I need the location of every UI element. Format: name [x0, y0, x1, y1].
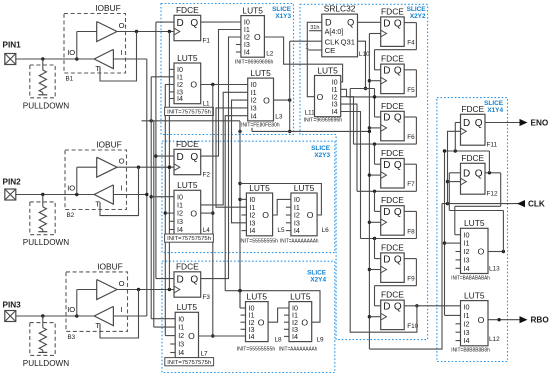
svg-text:FDCE: FDCE: [381, 54, 404, 64]
slice boundary X2Y4: [162, 261, 335, 372]
svg-text:FDCE: FDCE: [381, 290, 404, 300]
svg-text:INIT=AAAAAAAAh: INIT=AAAAAAAAh: [280, 239, 319, 245]
svg-text:SLICE: SLICE: [407, 6, 427, 13]
svg-text:I4: I4: [177, 225, 183, 234]
svg-text:PULLDOWN: PULLDOWN: [23, 238, 69, 247]
svg-text:F2: F2: [203, 172, 211, 179]
wire L3 output to clock net: [238, 41, 369, 133]
flip-flop F4: [381, 6, 415, 46]
svg-text:IOBUF: IOBUF: [95, 3, 121, 13]
output port ENO: [520, 119, 549, 128]
wire F4 Q wrap to F5 D: [375, 23, 417, 70]
svg-text:L10: L10: [359, 51, 370, 58]
svg-text:CE: CE: [325, 46, 336, 55]
svg-text:Q: Q: [190, 274, 198, 285]
LUT5 L2: [235, 5, 274, 65]
svg-text:D: D: [383, 66, 390, 77]
svg-text:Q: Q: [475, 118, 483, 129]
wire L13 O to F12 D: [449, 173, 505, 253]
svg-text:L2: L2: [266, 51, 274, 58]
wire F5 D join line: [350, 89, 376, 99]
wire O output of B1 to flip-flop clock: [117, 30, 174, 33]
input buffer triangle of B3: [94, 306, 113, 325]
wire SRLC32 Q31: [358, 41, 368, 90]
svg-text:B3: B3: [68, 334, 76, 341]
svg-text:FDCE: FDCE: [381, 101, 404, 111]
svg-text:Q: Q: [190, 18, 198, 29]
wire L11 I4 feed from F8 wrap: [341, 112, 361, 239]
svg-text:INIT=AAAAAAAAh: INIT=AAAAAAAAh: [279, 347, 318, 353]
flip-flop F8: [381, 195, 415, 235]
svg-text:L4: L4: [203, 227, 211, 234]
wire bundle vertical L3I4-L9 net: [225, 116, 248, 291]
svg-text:O: O: [262, 210, 269, 220]
wire net L1 I1 to L7 I0 vertical: [150, 77, 176, 319]
LUT5 L13: [451, 218, 500, 281]
IOBUF buffer B2: [65, 139, 127, 219]
wire L8 output to L9 I0: [268, 308, 289, 322]
svg-text:L8: L8: [275, 337, 283, 344]
wire L11 output to SRLC32 D: [307, 22, 322, 96]
svg-text:LUT5: LUT5: [242, 5, 263, 15]
svg-text:IOBUF: IOBUF: [97, 261, 123, 271]
svg-text:X2Y3: X2Y3: [314, 152, 330, 159]
svg-text:D: D: [177, 18, 184, 29]
svg-text:I4: I4: [244, 48, 250, 57]
wire SRLC32 Q to F4 D: [358, 21, 381, 23]
output buffer triangle of B3: [97, 280, 117, 300]
wire net L7 I1 feed: [154, 121, 175, 327]
svg-text:O: O: [188, 331, 195, 341]
svg-text:LUT5: LUT5: [294, 183, 315, 193]
output buffer triangle of B1: [97, 22, 117, 42]
svg-text:LUT5: LUT5: [250, 68, 271, 78]
wire O output of B3 to flip-flop clock: [117, 288, 174, 291]
svg-text:SRLC32: SRLC32: [324, 4, 356, 14]
LUT5 L11: [304, 65, 343, 123]
flip-flop F1: [174, 5, 210, 45]
svg-text:INIT=75757575h: INIT=75757575h: [167, 236, 211, 242]
input buffer triangle of B2: [94, 185, 113, 204]
svg-text:L1: L1: [203, 101, 211, 108]
svg-text:I4: I4: [177, 94, 183, 103]
flip-flop F7: [381, 148, 415, 188]
wire clock bus vertical: [368, 34, 381, 350]
wire clock net bottom run: [369, 204, 442, 350]
svg-text:D: D: [383, 18, 390, 29]
svg-text:L13: L13: [489, 266, 500, 273]
svg-text:X1Y4: X1Y4: [487, 107, 503, 114]
input buffer triangle of B1: [94, 49, 113, 68]
wire I-input vertical net: [145, 59, 148, 316]
svg-text:B2: B2: [67, 212, 75, 219]
svg-text:X1Y3: X1Y3: [275, 13, 291, 20]
svg-text:SLICE: SLICE: [311, 145, 331, 152]
svg-text:LUT5: LUT5: [249, 183, 270, 193]
wire L7 output to L8 I4: [199, 335, 246, 337]
wire L4 output: [201, 212, 213, 214]
svg-text:O: O: [119, 279, 125, 288]
pad PIN1: [3, 41, 22, 65]
svg-text:I4: I4: [249, 226, 255, 235]
IOBUF buffer B3: [66, 261, 128, 341]
wire L12 output to RBO: [488, 318, 520, 321]
svg-text:B1: B1: [66, 76, 74, 83]
wire horizontal bus y121: [142, 119, 241, 122]
svg-text:D: D: [463, 169, 470, 180]
svg-text:INIT=96969696h: INIT=96969696h: [235, 60, 274, 66]
wire I2 vertical net L1-L4-L7: [164, 85, 176, 336]
pulldown resistor R1: [23, 59, 69, 110]
svg-text:RBO: RBO: [531, 316, 550, 325]
svg-text:CLK: CLK: [528, 200, 545, 209]
svg-text:Q: Q: [394, 254, 402, 265]
pad PIN3: [3, 301, 22, 322]
flip-flop F3: [174, 261, 210, 301]
svg-text:F9: F9: [407, 276, 415, 283]
wire L11 I1 feed from F5 wrap: [341, 89, 347, 97]
svg-text:F4: F4: [407, 40, 415, 47]
constant 31h on A[4:0]: [309, 25, 322, 31]
svg-text:INIT=75757575h: INIT=75757575h: [167, 110, 211, 116]
shift register SRLC32 L10: [322, 4, 370, 58]
LUT5 L5: [240, 183, 285, 245]
svg-text:INIT=B8B8B8B8h: INIT=B8B8B8B8h: [451, 347, 490, 353]
wire bundle vertical L3I2-L5I3: [232, 100, 248, 223]
pad PIN2: [3, 178, 22, 201]
svg-text:IOBUF: IOBUF: [96, 139, 122, 149]
IOBUF buffer B1: [64, 3, 126, 83]
svg-text:FDCE: FDCE: [461, 153, 484, 163]
LUT5 L3: [241, 68, 283, 128]
svg-text:I4: I4: [292, 332, 298, 341]
svg-text:O: O: [190, 208, 197, 218]
constant 1 on CE: [305, 44, 322, 51]
wire F10 Q feedback loop: [350, 89, 418, 333]
wire pad net PIN2: [16, 167, 97, 196]
wire O output of B2 to flip-flop clock: [117, 166, 174, 169]
flip-flop F2: [174, 139, 210, 179]
svg-text:Q: Q: [394, 207, 402, 218]
svg-text:I4: I4: [332, 107, 338, 116]
wire bundle vertical L3I1-L4I1: [174, 92, 248, 205]
wire L1 I0 feed from clock net: [169, 68, 174, 70]
wire pad net PIN3: [16, 290, 97, 318]
wire pad net PIN1: [16, 32, 97, 61]
svg-text:FDCE: FDCE: [176, 139, 199, 149]
LUT5 L9: [279, 291, 324, 352]
svg-text:O: O: [478, 315, 485, 325]
slice boundary X2Y2 L-shaped: [300, 4, 428, 339]
svg-text:Q: Q: [394, 302, 402, 313]
svg-text:LUT5: LUT5: [177, 180, 198, 190]
svg-text:Q: Q: [394, 18, 402, 29]
svg-text:LUT5: LUT5: [464, 218, 485, 228]
slice boundary X1Y3: [161, 4, 294, 135]
LUT5 L1: [165, 53, 214, 116]
flip-flop F6: [381, 101, 415, 141]
wire L2 output to L11 I0: [264, 37, 342, 82]
svg-text:I: I: [121, 305, 123, 314]
svg-text:ENO: ENO: [531, 119, 549, 128]
svg-text:F11: F11: [487, 142, 498, 149]
svg-text:L11: L11: [305, 110, 316, 117]
wire L5 output to L6 I0: [273, 199, 291, 215]
svg-text:O: O: [254, 32, 261, 42]
svg-text:F8: F8: [407, 228, 415, 235]
svg-text:L6: L6: [322, 227, 330, 234]
svg-text:D: D: [463, 118, 470, 129]
pulldown resistor R2: [23, 195, 69, 248]
svg-text:SLICE: SLICE: [272, 6, 292, 13]
wire bundle vertical L3I3-L5I1: [216, 108, 248, 207]
LUT5 L4: [165, 180, 214, 242]
svg-text:L7: L7: [201, 351, 209, 358]
wire F8 Q wrap to F9 D: [361, 211, 417, 258]
svg-text:I4: I4: [464, 264, 470, 273]
svg-text:D: D: [383, 113, 390, 124]
pulldown resistor R3: [23, 316, 69, 368]
LUT5 L12: [451, 290, 500, 353]
wire L9 output net: [225, 289, 320, 322]
wire F12 Q to L13 I0: [455, 173, 501, 235]
wire bundle vertical L2I1-F2Q: [201, 30, 241, 157]
wire L13 I1 and L12 I1 feed: [443, 149, 461, 315]
wire I input of B3: [113, 315, 146, 317]
svg-text:SLICE: SLICE: [484, 100, 504, 107]
pin labels of B1: [67, 21, 124, 73]
svg-text:IO: IO: [67, 48, 75, 57]
svg-text:X2Y2: X2Y2: [410, 13, 426, 20]
svg-text:Q: Q: [475, 169, 483, 180]
svg-text:D: D: [383, 207, 390, 218]
wire L1 output net: [201, 83, 248, 338]
svg-text:F6: F6: [407, 134, 415, 141]
wire T feedback of B1: [100, 32, 137, 82]
LUT5 L7: [165, 302, 214, 366]
svg-text:L3: L3: [275, 114, 283, 121]
svg-text:PIN1: PIN1: [3, 41, 22, 50]
svg-text:LUT5: LUT5: [177, 53, 198, 63]
svg-text:I: I: [121, 184, 123, 193]
wire I input of B2: [113, 194, 146, 196]
svg-text:O: O: [119, 21, 125, 30]
svg-text:INIT=55555555h: INIT=55555555h: [240, 239, 279, 245]
svg-text:F5: F5: [407, 87, 415, 94]
pin labels of B3: [67, 279, 124, 330]
wire CLK to F11 F12 clocks: [446, 131, 461, 203]
svg-text:O: O: [301, 317, 308, 327]
svg-text:I: I: [121, 48, 123, 57]
svg-text:SLICE: SLICE: [307, 270, 327, 277]
svg-text:LUT5: LUT5: [317, 65, 338, 75]
svg-text:FDCE: FDCE: [381, 148, 404, 158]
svg-text:IO: IO: [67, 184, 75, 193]
svg-text:PIN2: PIN2: [3, 178, 22, 187]
svg-text:L12: L12: [489, 336, 500, 343]
svg-text:Q: Q: [394, 113, 402, 124]
svg-text:Q: Q: [347, 18, 354, 28]
svg-text:I4: I4: [178, 348, 184, 357]
svg-text:O: O: [307, 210, 314, 220]
svg-text:LUT5: LUT5: [290, 291, 311, 301]
LUT5 L8: [237, 291, 282, 352]
svg-text:O: O: [317, 92, 324, 102]
svg-text:O: O: [258, 317, 265, 327]
slice boundary X1Y4: [437, 98, 508, 362]
svg-text:F12: F12: [487, 191, 498, 198]
svg-text:PIN3: PIN3: [3, 301, 22, 310]
wire CLK input: [442, 202, 519, 205]
svg-text:L5: L5: [277, 227, 285, 234]
wire L6 output net: [240, 184, 321, 216]
svg-text:CLK: CLK: [325, 37, 341, 46]
svg-text:D: D: [177, 152, 184, 163]
svg-text:Q: Q: [190, 152, 198, 163]
input port CLK: [517, 200, 545, 209]
flip-flop F9: [381, 242, 415, 282]
svg-text:X2Y4: X2Y4: [310, 277, 326, 284]
wire F1 Q to L2 I0: [201, 21, 241, 23]
svg-text:FDCE: FDCE: [176, 5, 199, 15]
svg-text:L9: L9: [317, 337, 325, 344]
svg-text:A[4:0]: A[4:0]: [325, 27, 344, 36]
svg-text:I4: I4: [294, 226, 300, 235]
wire F12 Q to F11 D over F12: [445, 123, 501, 175]
wire T feedback of B3: [100, 290, 139, 339]
svg-text:PULLDOWN: PULLDOWN: [23, 359, 69, 368]
svg-text:INIT=BABABABAh: INIT=BABABABAh: [451, 276, 490, 282]
svg-text:FDCE: FDCE: [381, 242, 404, 252]
svg-text:O: O: [190, 80, 197, 90]
LUT5 L6: [280, 183, 329, 245]
svg-text:FDCE: FDCE: [381, 6, 404, 16]
output buffer triangle of B2: [97, 157, 117, 177]
wire F9 Q wrap to F10 D: [375, 259, 417, 306]
svg-text:FDCE: FDCE: [381, 195, 404, 205]
svg-text:Q31: Q31: [340, 37, 355, 46]
wire L11 I2 feed from F6 wrap: [341, 97, 354, 144]
wire F11 Q to ENO: [485, 122, 520, 124]
svg-text:D: D: [383, 254, 390, 265]
svg-text:Q: Q: [394, 66, 402, 77]
svg-text:Q: Q: [394, 160, 402, 171]
wire F10 Q to L12 I0: [404, 305, 460, 307]
svg-text:LUT5: LUT5: [464, 290, 485, 300]
wire bundle vertical L2I2-F3Q: [201, 37, 241, 279]
svg-text:FDCE: FDCE: [461, 104, 484, 114]
svg-text:D: D: [383, 302, 390, 313]
svg-text:O: O: [119, 157, 125, 166]
wire clock vertical net from B1 O: [168, 32, 171, 290]
svg-text:D: D: [177, 274, 184, 285]
flip-flop F5: [381, 54, 415, 94]
svg-text:F7: F7: [407, 181, 415, 188]
flip-flop F10: [381, 290, 419, 330]
svg-text:INIT=55555555h: INIT=55555555h: [237, 347, 276, 353]
svg-text:IO: IO: [67, 305, 75, 314]
svg-text:O: O: [478, 247, 485, 257]
wire D net of F1 F2 F3: [154, 22, 174, 279]
svg-text:I4: I4: [464, 336, 470, 345]
svg-text:I4: I4: [249, 332, 255, 341]
svg-text:O: O: [263, 95, 270, 105]
wire I input of B1: [113, 58, 146, 60]
svg-text:INIT=FE80FE80h: INIT=FE80FE80h: [241, 122, 280, 128]
wire L11 I3 feed from F7 wrap: [341, 104, 357, 191]
flip-flop F11: [461, 104, 498, 149]
pin labels of B2: [67, 157, 124, 209]
wire F6 Q wrap to F7 D: [354, 117, 417, 164]
wire F7 Q wrap to F8 D: [357, 164, 416, 211]
wire bundle vertical x240: [238, 121, 246, 308]
svg-text:INIT=96969696h: INIT=96969696h: [304, 117, 343, 123]
svg-text:LUT5: LUT5: [177, 302, 198, 312]
svg-text:PULLDOWN: PULLDOWN: [23, 101, 69, 110]
svg-text:INIT=75757575h: INIT=75757575h: [167, 360, 211, 366]
svg-text:LUT5: LUT5: [247, 291, 268, 301]
svg-text:F3: F3: [203, 294, 211, 301]
wire F5 Q wrap to F6 D: [347, 70, 417, 117]
svg-text:F1: F1: [203, 38, 211, 45]
svg-text:D: D: [383, 160, 390, 171]
flip-flop F12: [461, 153, 498, 198]
svg-text:FDCE: FDCE: [176, 261, 199, 271]
wire T feedback of B2: [100, 167, 139, 215]
slice boundary X2Y3: [162, 141, 335, 252]
output port RBO: [520, 316, 550, 325]
svg-text:I4: I4: [251, 111, 257, 120]
